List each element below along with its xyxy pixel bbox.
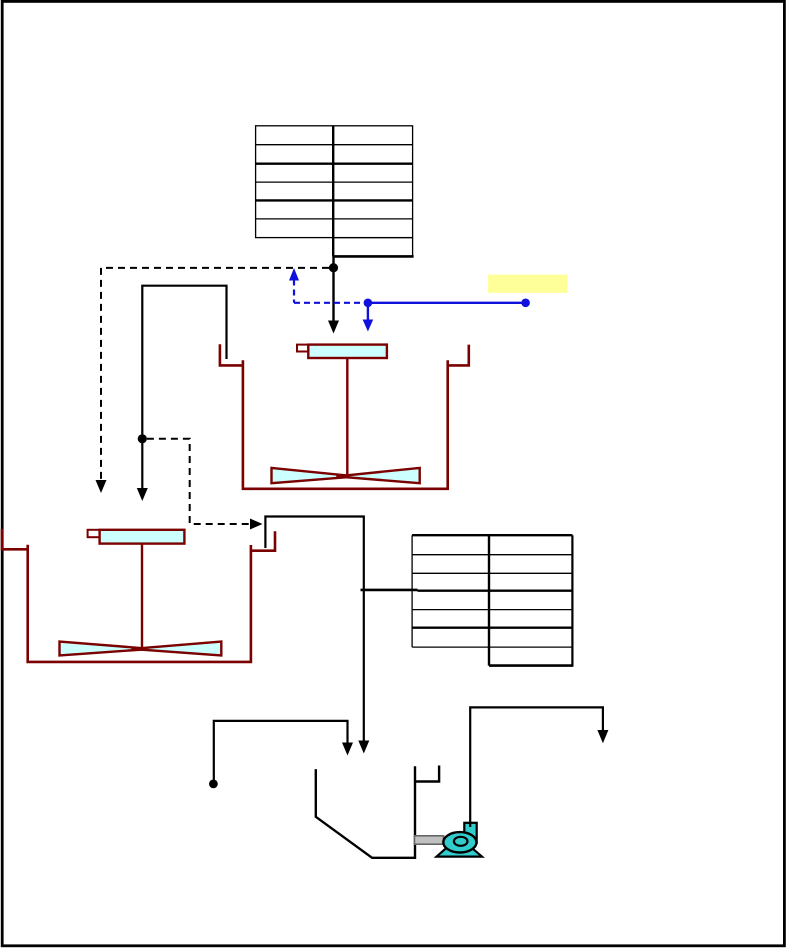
- pump P1 volute casing: [443, 832, 476, 852]
- table T1 (top feed table): [256, 126, 414, 257]
- agitator A2 impeller right blade: [132, 642, 222, 656]
- tank TK2 (left stirred tank, maroon): [2, 529, 275, 662]
- wire: blue drop line into tank TK1: [367, 303, 369, 321]
- node junction J2 on feed line: [138, 434, 147, 443]
- agitator A1 impeller right blade: [336, 468, 419, 483]
- agitator A2 top bar: [100, 530, 185, 544]
- pump P1 suction pipe (grey): [415, 836, 444, 844]
- wire: sludge line left with node: [214, 721, 348, 784]
- agitator A2 impeller left blade: [60, 642, 152, 656]
- wire: dashed recycle line J1 to left then down: [101, 268, 329, 481]
- agitator A2 shaft: [141, 544, 143, 650]
- wire: feed line table T1 to tank TK1: [332, 256, 334, 322]
- weir notch: [415, 766, 439, 782]
- wire: branch to table T2: [361, 589, 418, 592]
- yellow highlight label box: [488, 275, 567, 293]
- clarifier trough: [316, 766, 439, 858]
- tank TK1 (right stirred tank, maroon): [220, 344, 469, 489]
- wire: blue dashed horizontal: [294, 302, 368, 304]
- wire: black feed line into tank TK1 left port: [142, 286, 226, 436]
- arrow into tank TK2: [137, 488, 148, 501]
- arrow right (dashed bypass): [250, 519, 263, 530]
- node blue B2: [521, 299, 530, 308]
- node terminal dot: [209, 780, 218, 789]
- agitator A2 motor mount tab: [88, 530, 100, 537]
- wire: riser tip inside nozzle: [469, 822, 471, 827]
- agitator A1 shaft: [346, 358, 348, 477]
- arrow transfer line down into clarifier: [358, 741, 369, 754]
- arrow into tank TK1: [328, 321, 339, 334]
- wire: blue solid line to dot B2: [368, 302, 526, 304]
- arrow blue down: [363, 320, 374, 332]
- pump P1 base pedestal: [437, 837, 483, 857]
- table T2 (effluent table): [412, 535, 573, 665]
- wire: blue dashed vertical: [293, 280, 295, 303]
- arrow sludge line down: [342, 743, 353, 756]
- wire: feed line continues into tank TK2: [141, 439, 143, 489]
- wire: dashed bypass J2 to TK2 outlet: [147, 439, 250, 524]
- pump P1 discharge nozzle: [464, 823, 476, 843]
- agitator A1 motor mount tab: [297, 345, 308, 352]
- wire: outfall line from pump: [470, 707, 603, 822]
- wire: transfer line TK2 outlet up and over to clarifier: [265, 517, 363, 743]
- arrow outfall down: [597, 730, 608, 743]
- pump P1 impeller eye: [454, 837, 468, 846]
- agitator A1 impeller left blade: [272, 468, 357, 483]
- node junction J1: [329, 263, 338, 272]
- arrow down (dashed recycle): [96, 480, 107, 493]
- agitator A1 top bar: [308, 345, 387, 358]
- node blue B1: [364, 299, 373, 308]
- blue dosing line: up-arrow at J1: [289, 268, 299, 281]
